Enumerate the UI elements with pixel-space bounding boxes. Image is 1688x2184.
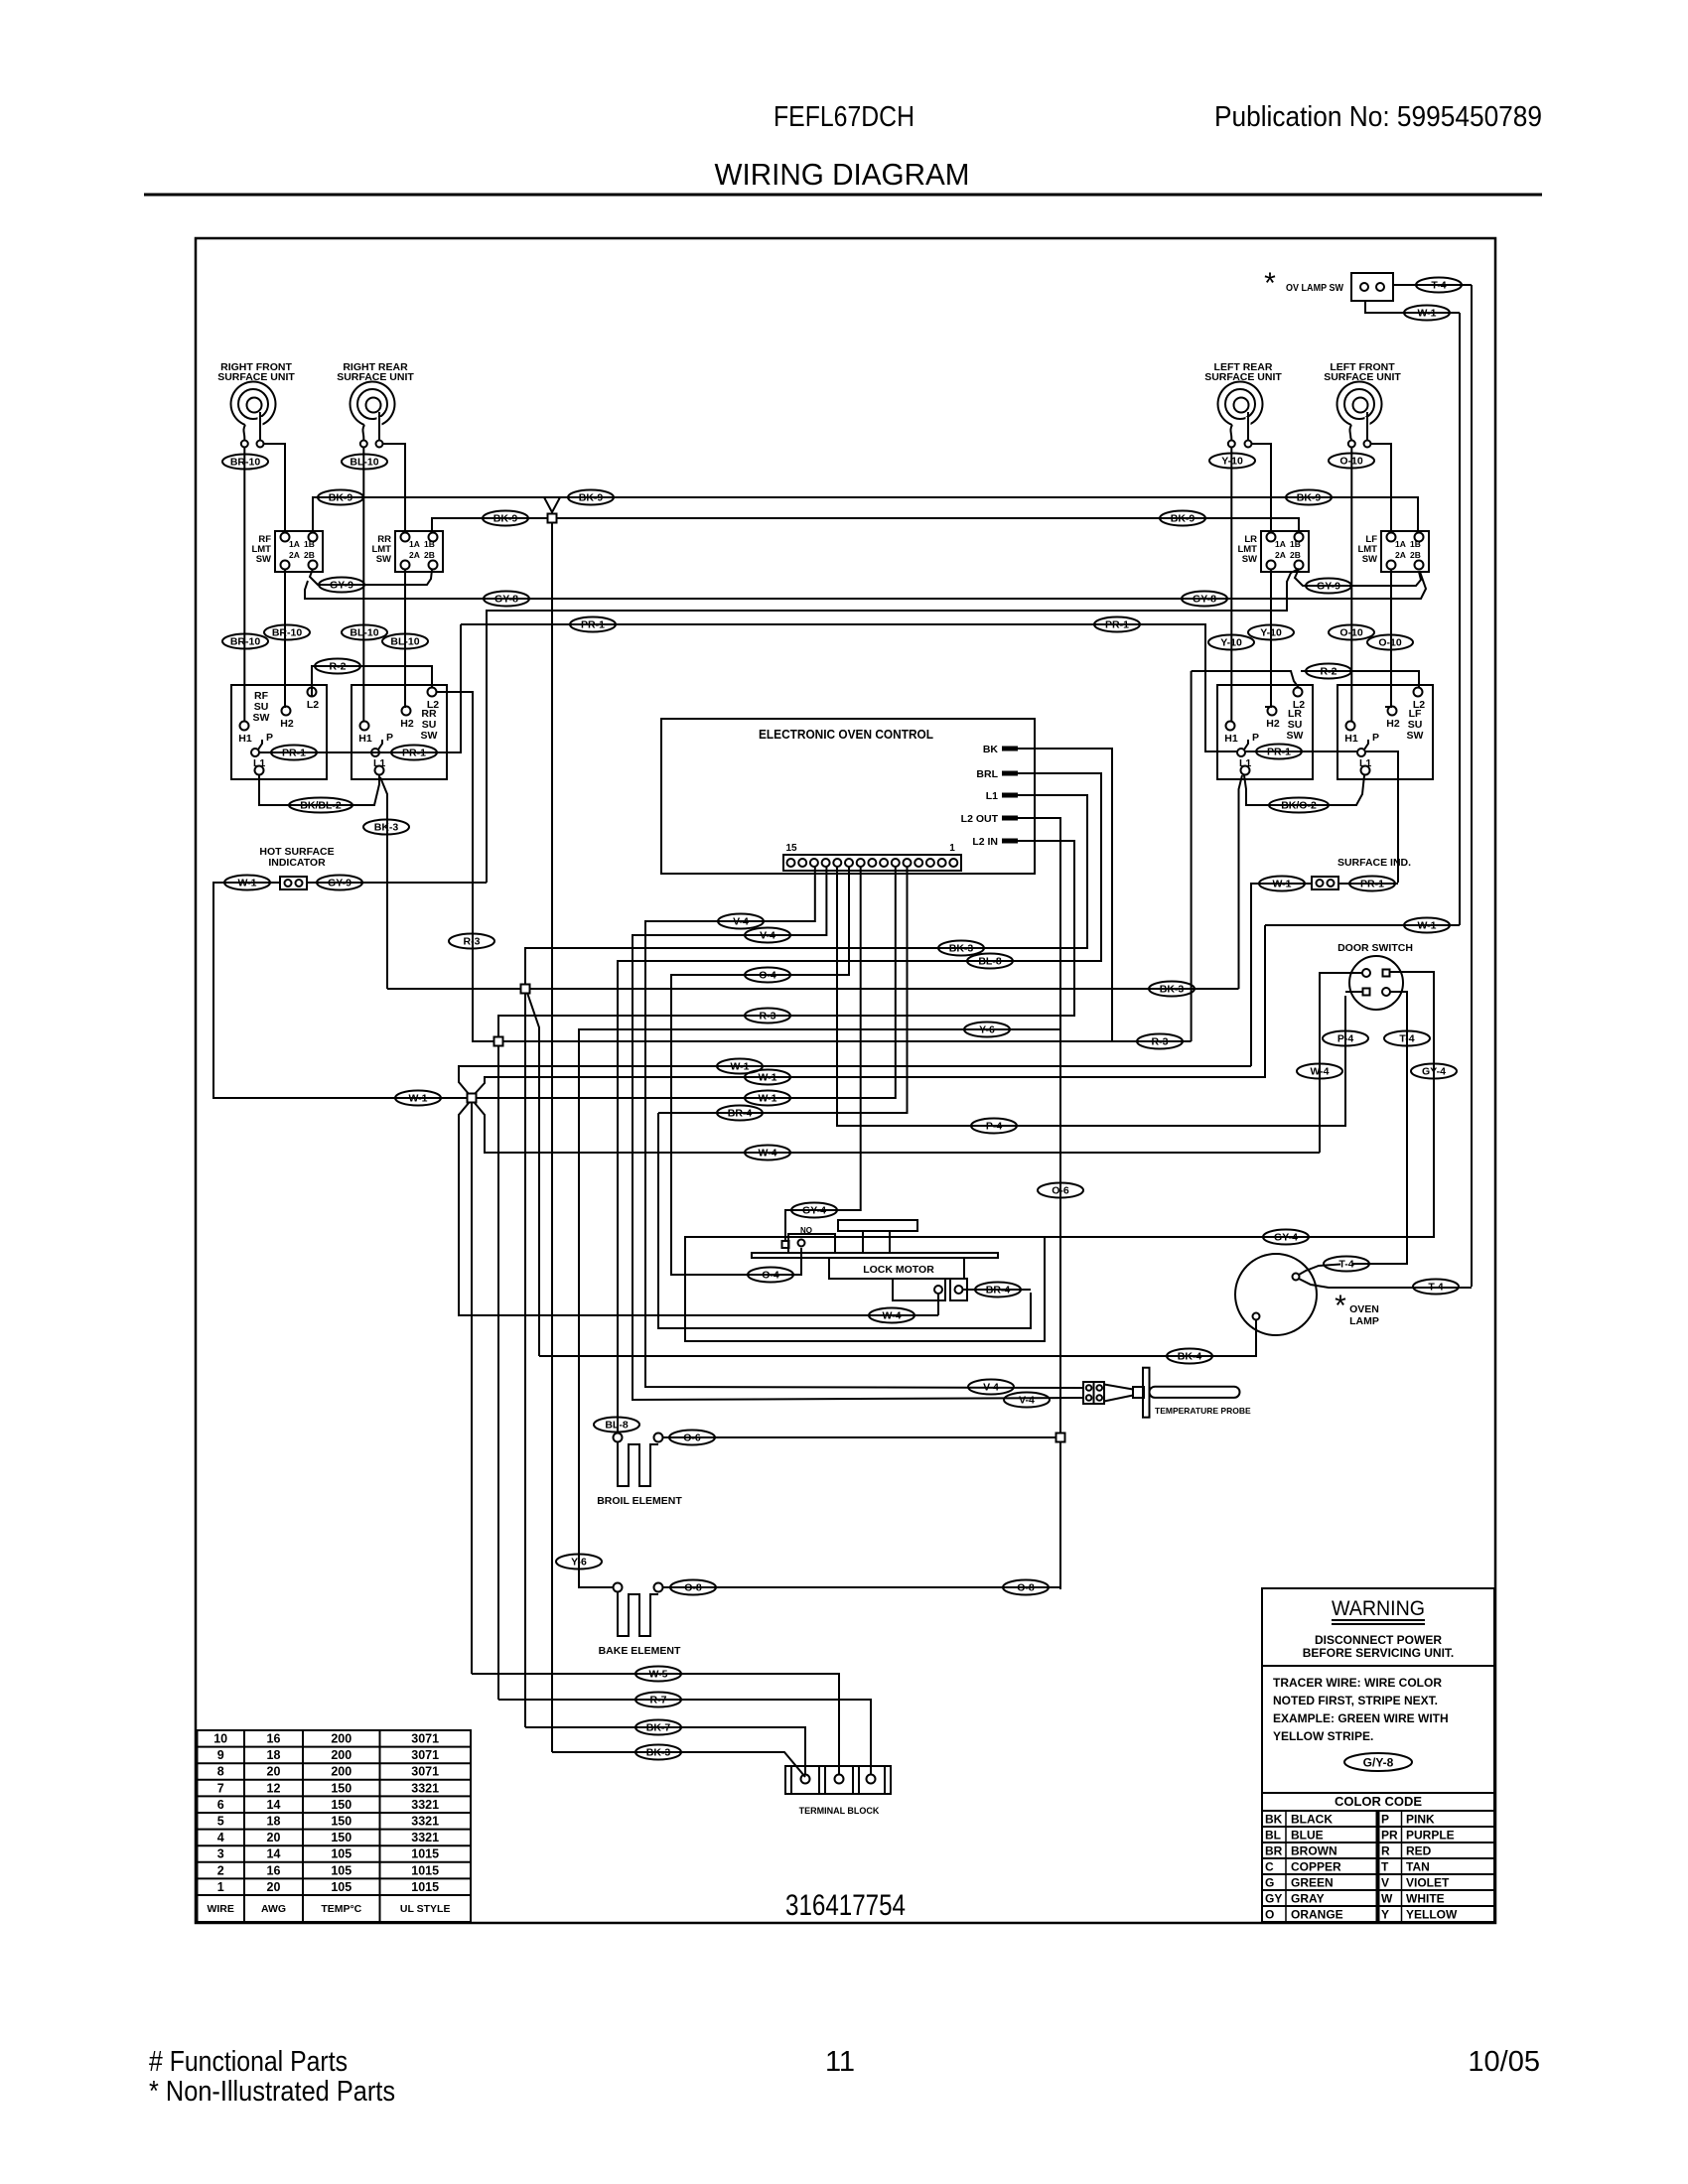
wire RF unit left lead BR-10 to H1 (243, 447, 245, 722)
wire GY-9 indicator to right (307, 882, 487, 884)
svg-text:BL-10: BL-10 (350, 626, 378, 638)
wire BK diag from junction (527, 993, 539, 1356)
wire LF unit left lead O-10 to H1 (1350, 447, 1352, 722)
label O-4 a (745, 968, 790, 983)
label BK-9 second right (1160, 511, 1205, 526)
door switch body (1349, 956, 1403, 1010)
svg-text:YELLOW: YELLOW (1406, 1907, 1458, 1921)
svg-text:H1: H1 (1224, 733, 1238, 745)
terminal block divider 5 (858, 1766, 860, 1794)
lock motor cap leg b (889, 1231, 891, 1253)
svg-text:105: 105 (331, 1863, 352, 1877)
svg-text:20: 20 (267, 1765, 281, 1779)
svg-text:R-2: R-2 (1321, 665, 1337, 677)
svg-text:SW: SW (421, 730, 438, 742)
label BK-3 bottom (635, 1745, 681, 1760)
svg-text:2B: 2B (1290, 550, 1301, 560)
wire PR-1 right P row (1245, 751, 1357, 752)
svg-text:BR-10: BR-10 (230, 635, 261, 647)
svg-text:WIRE: WIRE (207, 1903, 233, 1915)
svg-text:R-3: R-3 (464, 935, 481, 947)
label R-2 left (315, 659, 360, 674)
probe connector pin 3 (1086, 1395, 1092, 1401)
svg-text:SW: SW (253, 712, 270, 724)
EOC pin 7 (880, 859, 888, 867)
svg-text:BL-8: BL-8 (605, 1419, 628, 1431)
wire O-6 broil to junction (663, 1436, 1055, 1438)
svg-text:O-10: O-10 (1339, 626, 1363, 638)
svg-text:BR: BR (1265, 1843, 1283, 1857)
svg-text:BR-10: BR-10 (272, 626, 303, 638)
wire BK-7 run (525, 1727, 805, 1775)
label BK/O-2 (1269, 798, 1329, 813)
EOC pin 15 (787, 859, 795, 867)
label BR-10 lower (222, 634, 268, 649)
svg-text:14: 14 (267, 1798, 281, 1812)
label PR-1 surface ind (1349, 877, 1395, 891)
label W-1 y1085 (745, 1070, 790, 1085)
svg-text:Publication No: 5995450789: Publication No: 5995450789 (1214, 101, 1542, 133)
wire hub straight down to W-5 (471, 1103, 473, 1674)
svg-text:2A: 2A (1275, 550, 1286, 560)
svg-text:GY-8: GY-8 (1193, 593, 1216, 605)
svg-text:20: 20 (267, 1880, 281, 1894)
lock motor terminal a (934, 1286, 942, 1294)
EOC pin 5 (904, 859, 912, 867)
svg-text:L2: L2 (427, 699, 439, 711)
svg-text:L2: L2 (1413, 699, 1425, 711)
label O-8 right (1003, 1580, 1049, 1595)
label GY-8 right (1182, 592, 1227, 607)
svg-text:# Functional Parts: # Functional Parts (149, 2046, 348, 2078)
svg-text:Y-6: Y-6 (571, 1556, 587, 1568)
LF surface switch (1337, 685, 1433, 779)
wire LR unit right lead to LR LMT 1A (1252, 444, 1272, 533)
svg-text:COPPER: COPPER (1291, 1859, 1341, 1873)
svg-text:ELECTRONIC OVEN CONTROL: ELECTRONIC OVEN CONTROL (759, 727, 933, 742)
svg-text:GY-9: GY-9 (328, 877, 352, 888)
svg-text:V-4: V-4 (733, 915, 749, 927)
svg-text:COLOR CODE: COLOR CODE (1335, 1794, 1422, 1809)
wire door LL to P-4 (1345, 991, 1362, 993)
label GY-4 door vert (1411, 1064, 1457, 1079)
wire R-7 junction down leg (497, 1046, 499, 1700)
svg-text:7: 7 (217, 1781, 224, 1795)
terminal block divider 2 (818, 1766, 820, 1794)
wire V-4 second run (633, 867, 1083, 1400)
svg-text:OVEN: OVEN (1349, 1303, 1379, 1315)
label R-3 on y1023 (745, 1009, 790, 1024)
label T-4 oven lamp upper (1324, 1257, 1369, 1272)
probe connector pin 4 (1096, 1395, 1102, 1401)
svg-text:18: 18 (267, 1815, 281, 1829)
terminal block body (785, 1766, 891, 1794)
svg-text:*: * (1335, 1290, 1346, 1322)
svg-text:G: G (1265, 1875, 1274, 1889)
svg-text:PR-1: PR-1 (402, 747, 426, 758)
label W-1 y1074 (717, 1059, 763, 1074)
svg-text:3321: 3321 (411, 1815, 439, 1829)
svg-text:R: R (1381, 1843, 1390, 1857)
label R-7 (635, 1693, 681, 1707)
label O-10 lower (1329, 625, 1374, 640)
bake element terminal left (614, 1583, 623, 1592)
svg-text:1: 1 (217, 1880, 224, 1894)
label Y-6 at bake (556, 1555, 602, 1570)
temperature probe sleeve (1133, 1387, 1144, 1398)
svg-text:BK-9: BK-9 (493, 512, 518, 524)
label BR-10 mid (264, 625, 310, 640)
svg-text:1A: 1A (289, 539, 300, 549)
svg-text:H2: H2 (1386, 718, 1400, 730)
svg-text:*: * (1264, 267, 1276, 300)
label W-5 (635, 1667, 681, 1682)
svg-text:V-4: V-4 (760, 929, 775, 941)
lock motor body (829, 1258, 964, 1279)
lock motor lower box a (893, 1279, 945, 1300)
svg-text:2B: 2B (1410, 550, 1421, 560)
lock motor lower box b (950, 1279, 967, 1300)
svg-text:SW: SW (376, 554, 391, 565)
svg-text:200: 200 (331, 1748, 352, 1762)
wire BR-4 left vert (658, 1113, 1031, 1328)
label W-4 y1161 (745, 1146, 790, 1160)
hot surface indicator pin a (285, 880, 292, 887)
svg-text:LOCK MOTOR: LOCK MOTOR (863, 1264, 934, 1276)
svg-text:LAMP: LAMP (1349, 1315, 1379, 1327)
svg-text:18: 18 (267, 1748, 281, 1762)
svg-text:2A: 2A (409, 550, 420, 560)
svg-text:PINK: PINK (1406, 1812, 1435, 1826)
label W-1 surface ind (1259, 877, 1305, 891)
svg-text:316417754: 316417754 (785, 1889, 906, 1922)
svg-text:R-3: R-3 (1152, 1035, 1169, 1047)
svg-text:O-10: O-10 (1378, 636, 1402, 648)
svg-text:3071: 3071 (411, 1748, 439, 1762)
svg-text:BR-4: BR-4 (728, 1107, 753, 1119)
svg-text:GY-9: GY-9 (330, 579, 353, 591)
wire O-4 run (671, 867, 849, 1275)
diagram border frame (196, 238, 1495, 1923)
bake element terminal right (654, 1583, 663, 1592)
svg-text:BK-3: BK-3 (1160, 983, 1185, 995)
svg-text:3: 3 (217, 1847, 224, 1861)
wire L2 IN terminal run (498, 841, 1074, 1036)
svg-text:P: P (266, 732, 273, 744)
svg-text:BK-7: BK-7 (646, 1721, 671, 1733)
wire PR-1 down to P row left (259, 624, 461, 752)
label GY-4 y1246 (1263, 1230, 1309, 1245)
probe connector pin 1 (1086, 1385, 1092, 1391)
wire RR LMT 2A down to H2 (405, 569, 406, 707)
wire GY-9 RF2B to RR2B (310, 569, 432, 585)
oven lamp bulb (1235, 1254, 1317, 1335)
svg-text:W-4: W-4 (758, 1147, 776, 1159)
left front surface unit coil (1324, 361, 1401, 448)
label GY-9 right (1306, 579, 1351, 594)
door switch terminal LL (1363, 989, 1370, 996)
label BR-4 y1121 (717, 1106, 763, 1121)
wire GY-9 net long run (487, 573, 1291, 883)
svg-text:6: 6 (217, 1798, 224, 1812)
svg-text:H1: H1 (1344, 733, 1358, 745)
wire T-4 oven lamp to trunk (1299, 1279, 1472, 1288)
svg-text:20: 20 (267, 1831, 281, 1844)
svg-text:BK-3: BK-3 (374, 821, 399, 833)
label W-4 lock (869, 1308, 914, 1323)
svg-text:UL STYLE: UL STYLE (400, 1903, 451, 1915)
svg-text:W-1: W-1 (237, 877, 256, 888)
label PR-1 in RR (391, 746, 437, 760)
svg-text:W-1: W-1 (408, 1092, 427, 1104)
label BL-8 at broil (594, 1418, 639, 1433)
broil element terminal left (614, 1433, 623, 1442)
svg-text:1A: 1A (1395, 539, 1406, 549)
label GY-4 lock (791, 1203, 837, 1218)
wire W-1 to hot surface indicator (213, 883, 468, 1098)
wire BRL terminal run (618, 773, 1101, 1433)
label T-4 door vert (1384, 1031, 1430, 1046)
lock motor NO pin right (798, 1240, 805, 1247)
svg-text:BLACK: BLACK (1291, 1812, 1333, 1826)
wire T-4 right trunk (1471, 285, 1473, 1287)
label BK-3 on y996 (1149, 982, 1195, 997)
junction BK-9 trunk (548, 514, 557, 523)
svg-text:SW: SW (1287, 730, 1304, 742)
wire W-4 lock motor drop (937, 1294, 939, 1315)
wire Y-6 line from L2OUT (579, 1029, 1060, 1582)
svg-text:L2: L2 (307, 699, 319, 711)
svg-text:H2: H2 (1266, 718, 1280, 730)
EOC pin 12 (822, 859, 830, 867)
wire R-2 right to LF L2 (1301, 671, 1419, 687)
wire O-6 junction down (1059, 1442, 1061, 1589)
LR limit switch (1237, 531, 1309, 572)
wire LR unit left lead Y-10 to H1 (1230, 447, 1232, 722)
label GY-9 indicator (317, 876, 362, 890)
svg-text:YELLOW STRIPE.: YELLOW STRIPE. (1273, 1729, 1373, 1743)
svg-text:T: T (1381, 1859, 1389, 1873)
svg-text:FEFL67DCH: FEFL67DCH (774, 101, 914, 133)
svg-text:R-3: R-3 (760, 1010, 776, 1022)
terminal block lug 2 (835, 1775, 844, 1784)
svg-text:O-4: O-4 (759, 969, 776, 981)
wire RF LMT 2A down to H2 (285, 569, 286, 707)
temperature probe crossbar (1143, 1368, 1150, 1418)
EOC pin 2 (938, 859, 946, 867)
wire hub through right to W-1 pin6 (477, 867, 896, 1098)
wire GY-8 long run (305, 572, 1426, 599)
svg-text:BK-4: BK-4 (1178, 1350, 1202, 1362)
svg-text:BRL: BRL (976, 768, 998, 780)
svg-text:BROWN: BROWN (1291, 1843, 1337, 1857)
wire BK-3 y996 run b (530, 988, 1239, 990)
lock motor NO pin left (782, 1241, 789, 1248)
wire from LR-L1 down to y996 (1239, 775, 1243, 989)
label Y-10 upper (1209, 454, 1255, 469)
wire BK-3 from RR-L1 down (380, 777, 387, 989)
RF limit switch (251, 531, 323, 572)
label R-3 on y1049 (1137, 1034, 1183, 1049)
wire T-4 door run (1352, 992, 1407, 1264)
svg-text:PR-1: PR-1 (282, 747, 306, 758)
svg-text:2B: 2B (304, 550, 315, 560)
wire BK terminal run (1018, 749, 1112, 1041)
temperature probe connector (1083, 1382, 1104, 1404)
wire L2 OUT terminal run (1018, 818, 1060, 1433)
svg-text:1A: 1A (409, 539, 420, 549)
wire LR LMT 2A down to H2 (1265, 569, 1271, 707)
svg-text:P-4: P-4 (1337, 1032, 1354, 1044)
wire GY-4 lock run (785, 867, 861, 1240)
svg-text:5: 5 (217, 1815, 224, 1829)
svg-text:W-1: W-1 (758, 1071, 776, 1083)
label GY-8 left (484, 592, 529, 607)
svg-text:BEFORE SERVICING UNIT.: BEFORE SERVICING UNIT. (1303, 1646, 1454, 1660)
label O-6 on L2OUT (1038, 1183, 1083, 1198)
svg-text:14: 14 (267, 1847, 281, 1861)
svg-text:BK-9: BK-9 (579, 491, 604, 503)
svg-text:V: V (1381, 1875, 1389, 1889)
svg-text:W-1: W-1 (1417, 919, 1436, 931)
svg-text:SW: SW (1407, 730, 1424, 742)
wire W-5 run (472, 1674, 839, 1775)
terminal block lug 3 (867, 1775, 876, 1784)
wire GY-9 right LR2B to LF2B (1295, 569, 1421, 586)
EOC pin 14 (798, 859, 806, 867)
wire hub leg down-right to W-4 long (475, 1103, 1320, 1153)
terminal block divider 3 (824, 1766, 826, 1794)
label W-1 ov lamp sw (1404, 306, 1450, 321)
svg-text:200: 200 (331, 1765, 352, 1779)
EOC pin 3 (926, 859, 934, 867)
svg-text:P-4: P-4 (986, 1120, 1003, 1132)
wire BK-9 main run RF-1B to LF-1B (313, 497, 1418, 533)
svg-text:ORANGE: ORANGE (1291, 1907, 1343, 1921)
lock motor cap (838, 1220, 917, 1231)
svg-text:TEMP°C: TEMP°C (321, 1903, 361, 1915)
svg-text:10/05: 10/05 (1468, 2046, 1540, 2078)
broil element terminal right (654, 1433, 663, 1442)
left rear surface unit coil (1204, 361, 1282, 448)
EOC terminal BK (983, 744, 1018, 755)
label O-10 mid (1367, 635, 1413, 650)
label BK-7 (635, 1720, 681, 1735)
svg-text:O: O (1265, 1907, 1274, 1921)
wire W-1 from OV lamp sw (1365, 301, 1460, 313)
svg-text:16: 16 (267, 1863, 281, 1877)
svg-text:Y: Y (1381, 1907, 1389, 1921)
svg-text:12: 12 (267, 1781, 281, 1795)
wire BK-9 V tap to junction (544, 497, 560, 512)
label V-4 c (968, 1380, 1014, 1395)
svg-text:BR-10: BR-10 (230, 456, 261, 468)
label T-4 oven lamp lower (1413, 1280, 1459, 1295)
svg-text:3071: 3071 (411, 1732, 439, 1746)
wire R-2 stub down (1191, 671, 1193, 1041)
svg-text:BK/O-2: BK/O-2 (1281, 799, 1317, 811)
svg-text:O-6: O-6 (1052, 1184, 1069, 1196)
svg-text:P: P (1372, 732, 1379, 744)
svg-text:2A: 2A (1395, 550, 1406, 560)
bake element zigzag (618, 1592, 658, 1636)
svg-text:1015: 1015 (411, 1847, 439, 1861)
EOC terminal BRL (976, 768, 1018, 780)
RF surface switch (231, 685, 327, 779)
svg-text:L2 IN: L2 IN (972, 836, 998, 848)
svg-text:Y-10: Y-10 (1220, 636, 1242, 648)
junction O-6/O-8 (1056, 1433, 1065, 1442)
wire W-1 surface ind left (1251, 884, 1312, 1066)
EOC pin 11 (833, 859, 841, 867)
svg-text:BR-4: BR-4 (986, 1284, 1011, 1296)
svg-text:BROIL ELEMENT: BROIL ELEMENT (597, 1495, 682, 1507)
svg-text:H1: H1 (358, 733, 372, 745)
svg-text:GY-9: GY-9 (1317, 580, 1340, 592)
label PR-1 long right (1094, 617, 1140, 632)
svg-text:150: 150 (331, 1815, 352, 1829)
svg-text:L2: L2 (1293, 699, 1305, 711)
svg-text:W-1: W-1 (1272, 878, 1291, 889)
wire LF unit right lead to LF LMT 1A (1371, 444, 1392, 533)
X junction W-1 hub (468, 1094, 477, 1103)
probe connector taper (1104, 1385, 1133, 1390)
wire BK-4 run to oven lamp (539, 1320, 1256, 1356)
EOC pin 6 (892, 859, 900, 867)
surface ind pin b (1328, 880, 1335, 887)
svg-text:150: 150 (331, 1781, 352, 1795)
svg-text:WHITE: WHITE (1406, 1891, 1445, 1905)
svg-text:TRACER WIRE: WIRE COLOR: TRACER WIRE: WIRE COLOR (1273, 1676, 1442, 1690)
svg-text:OV LAMP SW: OV LAMP SW (1286, 282, 1343, 294)
probe connector pin 2 (1096, 1385, 1102, 1391)
svg-text:15: 15 (785, 843, 797, 854)
probe connector taper b (1104, 1396, 1133, 1402)
RR limit switch (371, 531, 443, 572)
header rule (144, 194, 1542, 197)
wire gauge table (198, 1730, 472, 1922)
wire T-4 from OV lamp sw (1393, 284, 1472, 286)
svg-text:W-1: W-1 (758, 1092, 776, 1104)
label BR-4 lock (975, 1283, 1021, 1297)
svg-text:1015: 1015 (411, 1880, 439, 1894)
label BL-10 upper (342, 455, 387, 470)
svg-text:RED: RED (1406, 1843, 1432, 1857)
label BK-3 on y955 (938, 941, 984, 956)
svg-text:INDICATOR: INDICATOR (268, 857, 326, 869)
wire W-1 right trunk (1459, 313, 1461, 925)
svg-text:BK/BL-2: BK/BL-2 (300, 799, 342, 811)
wire BK/O-2 LR-L1 to LF-L1 (1244, 775, 1364, 805)
svg-text:BK: BK (1265, 1812, 1283, 1826)
wire R-2 right run (1192, 671, 1299, 688)
wire BR-4 lock motor stub (963, 1289, 1031, 1291)
label BK-9 mid (568, 490, 614, 505)
svg-text:W: W (1381, 1891, 1393, 1905)
label O-4 b (748, 1268, 793, 1283)
right front surface unit coil (217, 361, 295, 448)
label BR-10 upper (222, 455, 268, 470)
oven lamp terminal bottom (1253, 1313, 1260, 1320)
svg-text:1: 1 (949, 843, 955, 854)
svg-text:W-4: W-4 (882, 1309, 901, 1321)
svg-text:PR-1: PR-1 (1267, 746, 1291, 757)
svg-text:Y-10: Y-10 (1260, 626, 1282, 638)
svg-text:O-10: O-10 (1339, 455, 1363, 467)
label BK-9 right (1286, 490, 1332, 505)
label T-4 ov lamp sw (1416, 278, 1462, 293)
svg-text:GRAY: GRAY (1291, 1891, 1325, 1905)
